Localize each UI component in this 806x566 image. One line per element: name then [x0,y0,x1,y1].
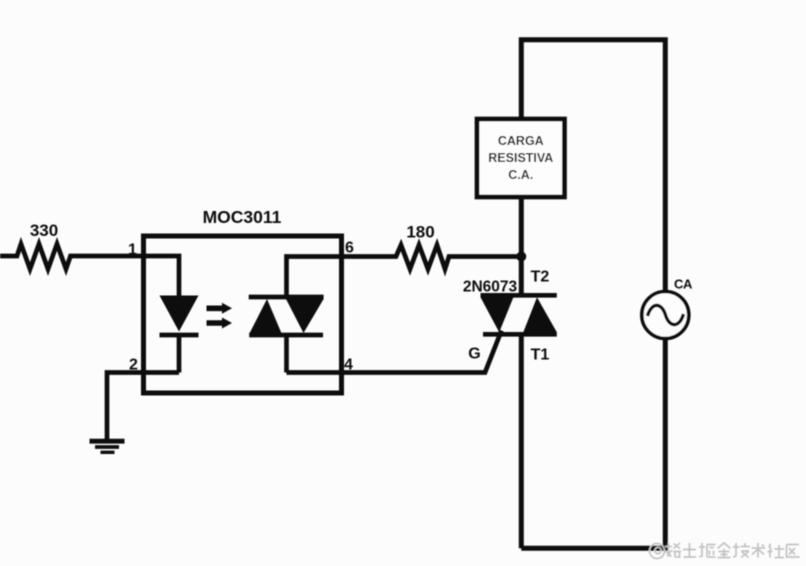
svg-text:2N6073: 2N6073 [463,279,518,296]
svg-text:MOC3011: MOC3011 [203,207,282,227]
svg-text:1: 1 [128,242,137,259]
svg-text:T1: T1 [531,347,550,364]
svg-text:C.A.: C.A. [508,168,533,182]
svg-text:G: G [468,346,480,363]
svg-text:180: 180 [406,223,434,242]
svg-text:RESISTIVA: RESISTIVA [488,151,553,165]
svg-text:T2: T2 [531,269,550,286]
svg-text:330: 330 [30,221,58,240]
svg-text:CARGA: CARGA [498,134,544,148]
svg-text:CA: CA [674,277,693,292]
svg-text:6: 6 [345,240,354,257]
